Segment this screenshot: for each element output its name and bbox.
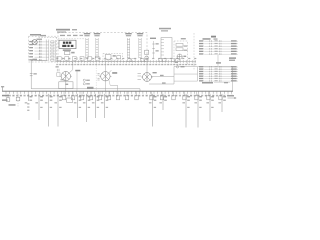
- terminal strip X1: [46, 40, 55, 63]
- wire (M3 up): [146, 62, 148, 73]
- terminal strip X4: [125, 33, 131, 58]
- wire (dashed link to relay panel): [39, 35, 58, 37]
- bus tap fuse boxes: [62, 91, 222, 100]
- M1 base frame: [59, 79, 73, 88]
- meter P1: [32, 39, 42, 45]
- terminal strip X3: [94, 33, 100, 58]
- terminal row fuse pairs: [128, 59, 180, 62]
- wire (M2 branch): [109, 80, 118, 91]
- junction terminals a/b: [83, 79, 90, 85]
- relay module K3 with coil (dashed): [174, 41, 188, 65]
- motor operator M2: [99, 72, 117, 81]
- contact group header: [203, 36, 218, 40]
- bottom wide row: [202, 82, 230, 84]
- indicator below K3: [175, 62, 185, 68]
- inner caption row: [60, 35, 83, 36]
- wire (M3 out upper): [152, 75, 175, 77]
- wire (riser to right panel): [174, 66, 233, 91]
- net label N600: [2, 95, 16, 106]
- relay module K1 (labelled box): [59, 40, 76, 48]
- label above K2: [159, 28, 171, 32]
- wire (M1 to terminal row): [69, 62, 73, 73]
- terminal row X10: [56, 58, 196, 65]
- auxiliary relay group KA (dashed): [103, 53, 123, 60]
- output contact group 1: [199, 40, 238, 55]
- fuse F1: [6, 94, 10, 102]
- drop end marks: [27, 103, 29, 110]
- label above left cabinet: [30, 34, 41, 36]
- wire (M2 up): [105, 62, 111, 73]
- outgoing arrow: [228, 95, 237, 99]
- wire (links to group 2): [174, 74, 198, 81]
- contact rows S1-S6: [29, 41, 46, 61]
- switch chain SA: [150, 38, 159, 58]
- group separator labels: [216, 57, 236, 63]
- DC supply bus: [2, 90, 233, 92]
- relay box K2: [161, 38, 172, 59]
- wire (left loop to rail): [30, 59, 60, 89]
- left control cabinet enclosure (dashed): [29, 36, 57, 62]
- contact left of M1: [56, 66, 60, 71]
- spare feeder box: [67, 98, 73, 102]
- bus label: [87, 87, 94, 89]
- wire (M2 stem): [104, 81, 106, 91]
- terminal strip X2: [84, 33, 90, 58]
- contact near M3: [138, 74, 142, 80]
- panel boundary (dashed): [193, 33, 195, 70]
- fuse F2: [16, 94, 20, 107]
- terminal strip X5: [137, 33, 143, 58]
- inner dashed boundary: [58, 38, 85, 40]
- aux contact under K1: [63, 49, 75, 54]
- pilot lamp HL above M3: [145, 50, 149, 59]
- wire (M1 stem): [65, 81, 67, 91]
- wire (group link): [217, 55, 219, 66]
- motor operator M1: [57, 70, 81, 81]
- wire (bottom rail): [60, 89, 141, 91]
- wire (M1 return): [76, 70, 78, 91]
- bus left end terminal: [1, 86, 4, 91]
- panel title label: [56, 29, 77, 33]
- motor operator M3: [141, 72, 156, 81]
- K3 corner label: [181, 38, 188, 51]
- output contact group 2: [198, 66, 239, 82]
- terminal header boxes: [57, 57, 100, 61]
- wire (M3 out lower): [149, 82, 174, 84]
- bus terminal ticks: [5, 91, 233, 96]
- contact near M2: [96, 63, 99, 90]
- relay panel enclosure (dashed): [58, 33, 147, 62]
- feeder drops: [25, 94, 226, 128]
